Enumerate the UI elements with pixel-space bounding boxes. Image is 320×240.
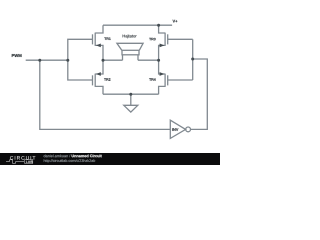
label TR4 xyxy=(149,78,156,80)
wire V+ top rail xyxy=(103,24,172,26)
logo LAB box xyxy=(25,160,33,164)
speaker terminals xyxy=(123,55,139,60)
transistor TR2 xyxy=(93,60,104,94)
label PWM xyxy=(12,54,22,57)
node right bus junction xyxy=(191,58,194,61)
wire TR3 gate xyxy=(168,38,193,40)
logo text CIRCUIT xyxy=(10,156,35,160)
speaker SP1 body xyxy=(122,50,139,55)
label TR2 xyxy=(104,78,110,80)
credit author xyxy=(44,154,71,157)
wire speaker to mid-right node xyxy=(138,59,159,61)
wire PWM input xyxy=(26,59,68,61)
footer bar xyxy=(0,153,220,165)
wire left gate bus xyxy=(68,39,92,80)
transistor TR4 xyxy=(159,60,168,94)
label TR3 xyxy=(149,38,155,40)
logo text LAB xyxy=(26,161,32,163)
logo waveform xyxy=(6,160,24,164)
arrow TR4 drain xyxy=(160,72,165,76)
node PWM/feedback junction xyxy=(38,59,41,62)
node mid-left xyxy=(102,59,105,62)
wire feedback run to inverter input xyxy=(40,60,171,129)
ground xyxy=(124,94,138,112)
label V+ xyxy=(173,20,178,23)
credit url xyxy=(44,159,95,162)
node V+ rail / TR3 drain xyxy=(157,24,160,27)
arrow TR3 source xyxy=(160,44,165,48)
transistor TR1 xyxy=(93,25,104,60)
node gate bus junction xyxy=(66,59,69,62)
label TR1 xyxy=(104,37,110,39)
label Hajtator xyxy=(123,34,137,38)
node mid-right xyxy=(157,59,160,62)
credit title xyxy=(72,154,102,157)
arrow TR1 source xyxy=(96,44,101,48)
wire TR4 gate xyxy=(168,79,193,81)
label INV xyxy=(172,128,178,131)
transistor TR3 xyxy=(159,25,168,60)
wire bottom rail xyxy=(103,93,159,95)
wire mid-left node to speaker xyxy=(103,59,123,61)
node ground junction xyxy=(129,93,132,96)
arrow TR2 drain xyxy=(96,72,101,76)
wire right gate bus xyxy=(192,39,194,80)
inverter U1 INV xyxy=(170,120,190,138)
wire inverter feedback loop xyxy=(191,59,208,129)
